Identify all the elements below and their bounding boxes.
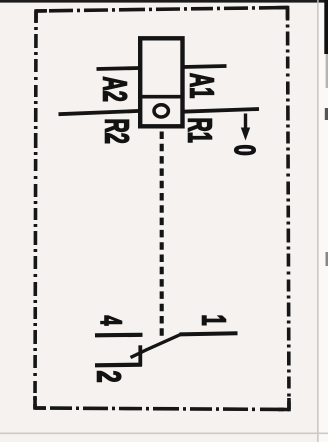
reset direction arrow [244,114,247,131]
wire terminal R1 [183,109,260,112]
scan artifact: top edge line [0,0,328,3]
svg-text:2: 2 [90,371,127,383]
scan artifact: faint bottom line [0,433,328,435]
changeover contact blade [131,335,181,358]
svg-text:R1: R1 [181,118,219,143]
wire terminal R2 [59,111,141,114]
relay coil K (outline box) [140,38,182,126]
wire terminal A2 [97,68,141,69]
mechanical link (dashed) [160,132,164,337]
svg-text:0: 0 [228,145,260,156]
svg-text:R2: R2 [98,119,136,144]
relay coil compartment divider [139,95,185,99]
scan artifact: right edge black bar [324,0,328,54]
svg-text:A2: A2 [96,77,134,102]
scan artifact: faint vertical line right [317,0,318,442]
remanent latching symbol (circle) [154,105,168,117]
enclosure boundary corner segments [35,6,289,412]
wire terminal A1 [183,66,227,67]
svg-text:4: 4 [94,316,127,326]
wire terminal 2 with break-contact tick [138,345,142,366]
wire terminal 1 (common) [180,333,238,334]
svg-text:1: 1 [195,315,233,326]
enclosure boundary (dash-dot box) [35,8,289,410]
wire terminal 4 [95,333,143,338]
svg-text:A1: A1 [183,73,221,98]
